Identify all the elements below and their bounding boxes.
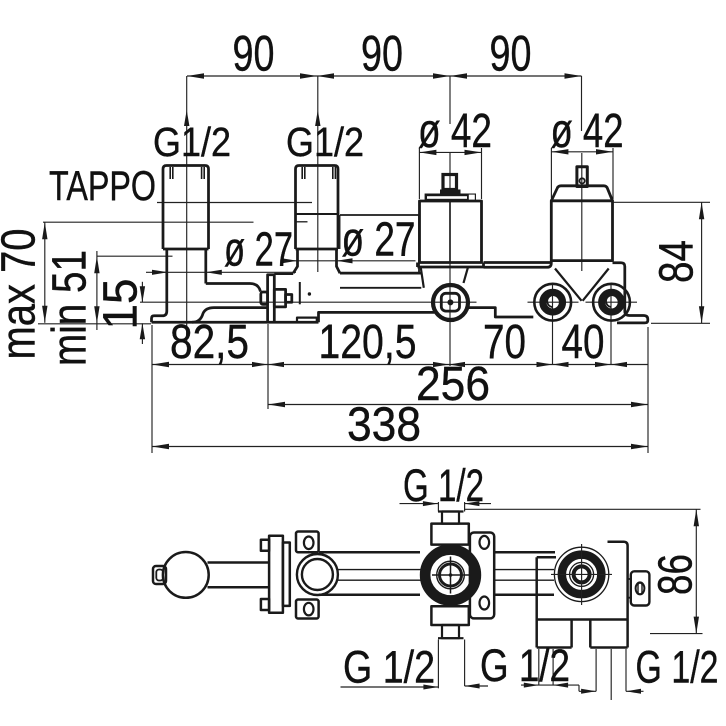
svg-text:256: 256 — [416, 358, 490, 411]
svg-text:90: 90 — [233, 26, 275, 82]
svg-text:G 1/2: G 1/2 — [403, 460, 484, 511]
svg-text:G1/2: G1/2 — [286, 119, 364, 165]
svg-text:86: 86 — [650, 554, 703, 595]
svg-text:ø 27: ø 27 — [342, 214, 416, 267]
svg-text:40: 40 — [562, 316, 605, 369]
svg-text:ø 42: ø 42 — [418, 105, 492, 158]
svg-text:120,5: 120,5 — [319, 316, 417, 369]
svg-text:82,5: 82,5 — [170, 316, 249, 369]
svg-text:G1/2: G1/2 — [153, 119, 231, 165]
svg-text:G 1/2: G 1/2 — [480, 640, 570, 691]
svg-text:90: 90 — [490, 26, 532, 82]
svg-text:338: 338 — [347, 399, 421, 452]
svg-text:G 1/2: G 1/2 — [636, 642, 719, 693]
svg-text:ø 42: ø 42 — [551, 105, 624, 158]
svg-text:84: 84 — [651, 240, 704, 283]
svg-text:ø 27: ø 27 — [224, 224, 293, 277]
svg-text:15: 15 — [95, 279, 148, 330]
svg-text:max 70: max 70 — [0, 229, 46, 360]
svg-text:90: 90 — [361, 26, 403, 82]
svg-text:TAPPO: TAPPO — [49, 162, 156, 209]
svg-text:G 1/2: G 1/2 — [343, 642, 435, 693]
svg-text:min 51: min 51 — [44, 250, 97, 366]
